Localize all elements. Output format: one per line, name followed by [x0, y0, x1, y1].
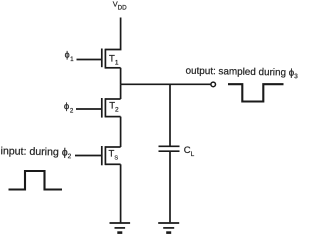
svg-text:TS: TS [109, 149, 119, 162]
svg-text:VDD: VDD [113, 0, 127, 12]
capacitor CL [159, 146, 180, 151]
wire TS source to ground [120, 164, 122, 223]
wire input gate [75, 155, 101, 157]
wire T1 source to output node [120, 68, 122, 85]
svg-text:T2: T2 [109, 101, 119, 114]
wire phi2 gate [76, 108, 101, 110]
wire capacitor branch bottom [169, 152, 171, 222]
node output terminal [211, 82, 216, 87]
transistor TS [102, 146, 121, 165]
wire output node horizontal [121, 83, 211, 85]
wire capacitor branch top [169, 84, 171, 145]
input pulse waveform [9, 171, 63, 190]
svg-text:output: sampled during ϕ3: output: sampled during ϕ3 [185, 66, 298, 81]
transistor T2 [102, 98, 121, 118]
svg-text:T1: T1 [109, 54, 119, 67]
ground under CL [158, 223, 179, 233]
svg-text:input: during ϕ2: input: during ϕ2 [0, 145, 71, 160]
output pulse waveform [228, 84, 284, 101]
svg-text:ϕ2: ϕ2 [64, 101, 74, 115]
power VDD lead wire [105, 18, 120, 50]
wire phi1 gate [77, 59, 102, 61]
wire T2 drain to output node [120, 84, 122, 99]
wire T2 source to TS drain [120, 117, 122, 147]
svg-text:CL: CL [184, 145, 195, 158]
ground under TS [110, 223, 131, 233]
transistor T1 [102, 49, 121, 69]
svg-text:ϕ1: ϕ1 [65, 50, 75, 63]
